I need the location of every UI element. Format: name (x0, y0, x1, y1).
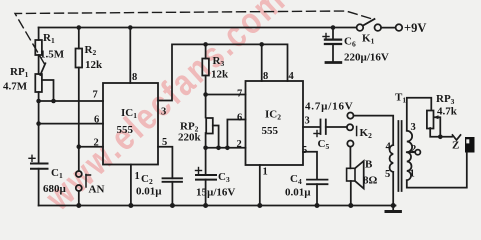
svg-text:7: 7 (237, 89, 242, 100)
wire pin5 IC2 to C4 (303, 152, 317, 180)
wire down to C3 (205, 148, 207, 175)
wire R1 top (38, 28, 40, 41)
watermark www.elecfans.com (37, 0, 294, 219)
wire C2 bottom (171, 182, 173, 206)
svg-text:680µ: 680µ (43, 183, 67, 195)
speaker B (347, 168, 355, 181)
svg-text:3: 3 (161, 107, 166, 118)
switch K1 (357, 24, 364, 31)
wire pin1 IC2 (259, 165, 261, 206)
svg-text:2: 2 (237, 139, 242, 150)
C6 plus sign (323, 34, 329, 40)
svg-text:220µ/16V: 220µ/16V (344, 52, 389, 64)
svg-text:R2: R2 (85, 44, 97, 57)
C3 plus sign (196, 168, 202, 174)
wire jack to secondary bottom (407, 153, 467, 188)
svg-text:5: 5 (162, 137, 167, 148)
bottom rail (39, 205, 396, 207)
capacitor C3 (196, 175, 216, 180)
wire K2 top to transformer (354, 116, 394, 145)
svg-text:555: 555 (117, 124, 134, 136)
wire pin5 IC1 to C2 (158, 147, 172, 179)
svg-text:555: 555 (262, 125, 279, 137)
svg-text:C2: C2 (141, 173, 153, 186)
wire pin2 IC1 (79, 146, 103, 148)
transformer T1 primary winding (390, 145, 394, 172)
wire down to C1 (38, 124, 40, 164)
capacitor C5 (321, 120, 326, 135)
RP1 wiper arrow (40, 63, 45, 75)
wire K2 bottom to speaker (349, 147, 351, 169)
wire pin6 IC2 (227, 120, 245, 148)
svg-text:B: B (365, 159, 373, 171)
C5 plus sign (314, 131, 320, 137)
wire RP3 bottom (430, 128, 452, 137)
wire C6 bottom + ground bar (332, 44, 334, 62)
transformer T1 secondary winding (407, 131, 412, 180)
svg-text:C3: C3 (218, 171, 230, 184)
C1 plus sign (29, 155, 35, 161)
svg-text:4.7µ/16V: 4.7µ/16V (305, 101, 354, 113)
svg-text:C5: C5 (318, 138, 330, 151)
wire pin2 IC2 (206, 147, 246, 149)
svg-text:8Ω: 8Ω (363, 175, 378, 187)
svg-text:5: 5 (385, 169, 390, 180)
top rail +9V (39, 27, 357, 29)
svg-text:IC2: IC2 (265, 109, 281, 122)
potentiometer RP3 (427, 111, 434, 129)
wire pin8 IC2 (261, 44, 263, 81)
svg-text:2: 2 (411, 144, 416, 155)
resistor R3 (202, 59, 209, 76)
svg-text:T1: T1 (395, 92, 406, 105)
dashed mechanical link RP1-K1 (15, 11, 374, 64)
svg-text:4.7k: 4.7k (437, 106, 458, 118)
svg-text:K2: K2 (360, 127, 373, 140)
potentiometer RP2 (206, 118, 213, 134)
svg-text:220k: 220k (178, 132, 202, 144)
capacitor C6 (332, 28, 334, 40)
potentiometer RP1 (35, 74, 42, 92)
pushbutton AN (76, 171, 82, 177)
svg-text:K1: K1 (362, 33, 375, 46)
svg-text:12k: 12k (211, 69, 229, 81)
svg-text:15µ/16V: 15µ/16V (196, 187, 235, 199)
resistor R1 (35, 40, 42, 55)
op IC2 555 box (246, 81, 304, 165)
svg-text:7: 7 (93, 90, 98, 101)
wire speaker bottom (350, 181, 352, 206)
svg-text:1: 1 (263, 167, 268, 178)
resistor R2 (76, 49, 83, 68)
K2 actuator bar (356, 127, 358, 136)
transformer core (397, 121, 399, 191)
RP2 wiper tap (213, 126, 219, 148)
svg-text:+9V: +9V (404, 21, 426, 35)
wire C5 to K2 (326, 126, 347, 128)
svg-text:2: 2 (94, 138, 99, 149)
wire R3 top (205, 44, 207, 58)
capacitor C2 (163, 178, 183, 182)
op IC1 555 box (103, 83, 158, 165)
wire C3 bottom (205, 180, 207, 206)
ground (386, 210, 400, 213)
svg-text:4: 4 (289, 71, 295, 82)
plug symbol (453, 135, 461, 140)
wire pin8 IC1 (129, 28, 131, 84)
svg-text:0.01µ: 0.01µ (136, 186, 162, 198)
wire node down left (38, 101, 40, 124)
wire R3 to pin7 node (205, 76, 207, 95)
RP3 wiper (435, 117, 441, 137)
wire R2 top (78, 28, 80, 49)
svg-text:RP3: RP3 (436, 93, 455, 106)
svg-text:3: 3 (411, 122, 416, 133)
svg-text:0.01µ: 0.01µ (285, 187, 311, 199)
wire C4 bottom (316, 184, 318, 205)
wire pin7 IC2 (206, 94, 246, 96)
wire pin3 IC1 to IC2 supply line (158, 44, 288, 100)
wire RP2 bottom (205, 133, 207, 148)
svg-text:1: 1 (410, 169, 415, 180)
svg-text:6: 6 (94, 115, 99, 126)
RP1 wiper tap wire (42, 80, 54, 101)
svg-text:8: 8 (132, 72, 137, 83)
wire down to RP2 (205, 95, 207, 118)
svg-text:Z: Z (452, 140, 459, 152)
svg-text:4.7M: 4.7M (3, 81, 28, 93)
svg-text:5: 5 (302, 145, 307, 156)
svg-text:3: 3 (305, 116, 310, 127)
wire primary bottom to ground (392, 172, 394, 211)
wire AN bottom (78, 191, 80, 206)
wire pin7 IC1 (39, 100, 103, 102)
wire secondary top to RP3 (407, 98, 432, 131)
svg-text:R1: R1 (43, 32, 55, 45)
svg-text:RP1: RP1 (10, 66, 29, 79)
wire RP1 bottom (38, 92, 40, 101)
svg-text:1.5M: 1.5M (40, 49, 65, 61)
capacitor C4 (307, 180, 328, 185)
svg-text:AN: AN (89, 184, 105, 196)
svg-text:C6: C6 (344, 36, 356, 49)
wire R1-RP1 (38, 55, 40, 74)
svg-text:6: 6 (237, 113, 242, 124)
wire R2 down to AN (78, 68, 80, 172)
wire pin3 IC2 to C5 (303, 126, 319, 128)
capacitor C1 (31, 164, 48, 169)
jack Z (465, 137, 475, 153)
wire C1 bottom (38, 169, 40, 206)
svg-text:12k: 12k (85, 59, 103, 71)
wire pin6 IC1 (39, 123, 103, 125)
svg-text:4: 4 (386, 142, 392, 153)
svg-text:1: 1 (135, 171, 140, 182)
switch K2 contacts (347, 113, 353, 119)
wire pin1 IC1 (130, 165, 132, 206)
secondary tap 2 (407, 151, 415, 153)
svg-text:C4: C4 (290, 173, 302, 186)
svg-text:8: 8 (263, 71, 268, 82)
